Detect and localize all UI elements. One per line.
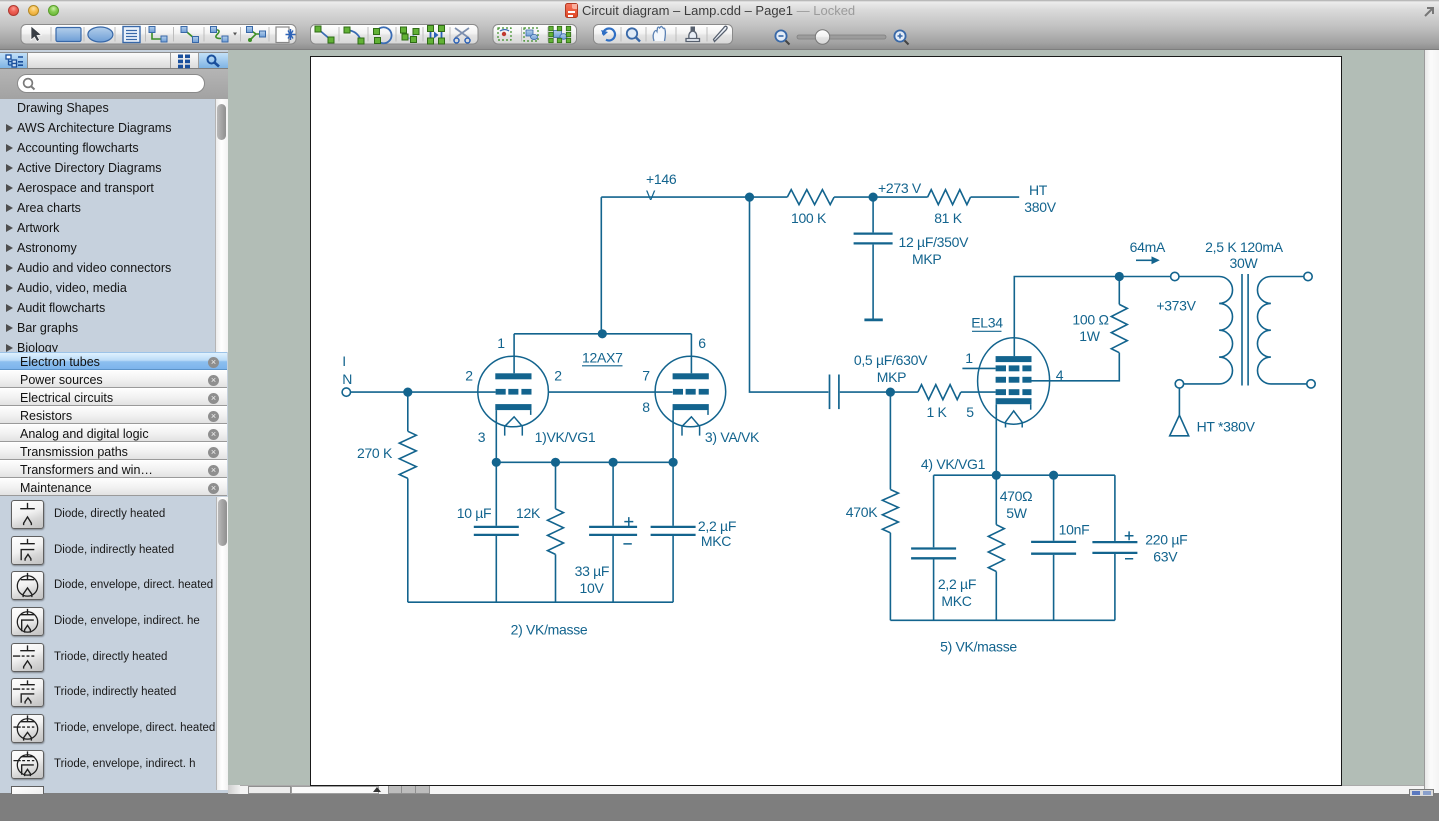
wire: V1a grid to V1b grid [548, 391, 672, 393]
svg-text:N: N [342, 370, 352, 386]
primary terminal bottom [1175, 379, 1183, 387]
wire: bus to 12K [554, 462, 556, 509]
input terminal IN [342, 387, 350, 395]
svg-text:2,5 K 120mA: 2,5 K 120mA [1205, 239, 1284, 255]
svg-text:30W: 30W [1229, 255, 1258, 271]
junction: cathode bus at 2,2uF [668, 457, 677, 466]
wire: 10nF to ground bus [1052, 554, 1054, 620]
value label 2,2 uF MKC [697, 518, 735, 549]
value label 10 uF [456, 505, 491, 521]
wire: ground bus (EL34 stage) [890, 619, 1115, 621]
value label 1 K [926, 404, 947, 420]
svg-text:33 µF: 33 µF [574, 563, 609, 579]
wire: primary bottom to HT symbol [1178, 388, 1180, 415]
svg-text:1: 1 [497, 335, 505, 351]
wire: input to grid of V1a [350, 391, 495, 393]
junction: cathode at 470 Ohm [991, 470, 1000, 479]
wire: 1K to EL34 grid pin 5 [960, 391, 995, 393]
svg-text:7: 7 [642, 367, 650, 383]
svg-text:63V: 63V [1153, 548, 1178, 564]
wire: capacitor to ground stub [872, 244, 874, 318]
pin 1 label [965, 350, 973, 366]
net label HT 380V [1024, 182, 1056, 215]
tube type label EL34 [971, 314, 1003, 331]
wire: +273V node down to capacitor [872, 197, 874, 232]
svg-text:100 K: 100 K [790, 210, 826, 226]
wire: junction to 10nF [1052, 475, 1054, 541]
wire: V1b cathode down [672, 410, 674, 462]
resistor 1 K (grid stopper) [917, 384, 960, 399]
wire: 10uF to ground bus [495, 536, 497, 602]
stencil icon: diode envelope directly heated [11, 571, 44, 600]
stencil icon: triode directly heated [11, 643, 44, 672]
net label +146 V [646, 171, 677, 203]
svg-text:MKC: MKC [941, 593, 971, 609]
junction: cathode bus at 10uF [491, 457, 500, 466]
wire: V1a cathode down [495, 410, 497, 462]
svg-text:I: I [342, 352, 346, 368]
pin 7 label (V1b grid) [642, 367, 650, 383]
svg-text:470K: 470K [845, 504, 877, 520]
pin 1 stub (EL34 g3) [962, 367, 995, 369]
svg-text:V: V [646, 187, 656, 203]
svg-text:2) VK/masse: 2) VK/masse [510, 621, 587, 637]
svg-text:12AX7: 12AX7 [582, 349, 623, 365]
wire: ground bus (12AX7 stage) [407, 601, 672, 603]
junction: EL34 grid node [885, 387, 894, 396]
junction: input node [403, 387, 412, 396]
resistor 470K (grid leak EL34) [882, 489, 898, 532]
stencil icon: diode indirectly heated [11, 536, 44, 565]
wire: bus to 2,2uF [672, 462, 674, 526]
resistor 270 K (grid leak) [399, 431, 416, 478]
wire: 81K to HT supply [970, 196, 1019, 198]
junction: anode bus [597, 329, 606, 338]
resistor 100 K [787, 189, 834, 204]
svg-text:12 µF/350V: 12 µF/350V [898, 234, 969, 250]
function label 5) VK/masse [940, 638, 1017, 654]
wire: grid node to 1K [890, 391, 918, 393]
wire: EL34 cathode down [995, 404, 997, 475]
pentode U1 EL34 [977, 337, 1049, 427]
junction: cathode at 10nF [1049, 470, 1058, 479]
junction: cathode bus at 33uF [608, 457, 617, 466]
svg-text:1 K: 1 K [926, 404, 947, 420]
value label 12K [515, 505, 540, 521]
wire: input node down to resistor [406, 392, 408, 431]
wire: coupling cap to grid node [839, 391, 890, 393]
value label 12 uF/350V MKP [898, 234, 969, 267]
transformer primary terminal (top) [1170, 272, 1178, 280]
svg-text:1W: 1W [1079, 328, 1100, 344]
svg-text:270 K: 270 K [356, 445, 392, 461]
transformer core [1242, 274, 1248, 386]
current label 64mA with arrow [1129, 239, 1165, 264]
svg-text:470Ω: 470Ω [999, 488, 1032, 504]
net label +373V [1156, 297, 1196, 313]
wire: 470 Ohm to ground bus [995, 571, 997, 620]
triode V1b (12AX7 section 2) [655, 333, 726, 435]
resistor 470 Ohm 5W (cathode bias) [988, 524, 1004, 571]
wire: EL34 cathode bus [933, 474, 1114, 476]
svg-text:8: 8 [642, 399, 650, 415]
net label +273 V [878, 180, 922, 196]
wire: +273V to 81K [873, 196, 928, 198]
value label 470 Ohm 5W [999, 488, 1032, 521]
secondary terminal bottom [1306, 379, 1314, 387]
svg-text:MKP: MKP [876, 369, 905, 385]
value label 2,2 uF MKC [937, 576, 975, 609]
wire: 2,2uF to ground bus [672, 536, 674, 602]
svg-text:5W: 5W [1006, 505, 1027, 521]
junction: coupling takeoff [744, 192, 753, 201]
svg-text:220 µF: 220 µF [1145, 531, 1187, 547]
tube type label 12AX7 [582, 349, 623, 366]
value label 100 K [790, 210, 826, 226]
junction: cathode bus at 12K [550, 457, 559, 466]
stencil icon: triode indirectly heated [11, 678, 44, 707]
value label 10nF [1058, 521, 1089, 537]
svg-text:380V: 380V [1024, 199, 1056, 215]
stencil icon: diode directly heated [11, 500, 44, 529]
svg-text:64mA: 64mA [1129, 239, 1165, 255]
wire: 33uF to ground bus [612, 536, 614, 602]
capacitor 12 uF/350V MKP [853, 233, 892, 243]
value label 100 Ohm 1W [1072, 311, 1108, 344]
wire: grid node down to 470K [889, 392, 891, 489]
junction: +273V node [868, 192, 877, 201]
svg-text:EL34: EL34 [971, 314, 1003, 330]
pin 8 label (V1b cathode) [642, 399, 650, 415]
svg-text:1)VK/VG1: 1)VK/VG1 [534, 428, 595, 444]
node label IN [342, 352, 352, 386]
capacitor 10 uF [473, 526, 518, 534]
svg-text:MKC: MKC [700, 533, 730, 549]
svg-text:2,2 µF: 2,2 µF [937, 576, 975, 592]
svg-text:2: 2 [465, 367, 473, 383]
function label 1)VK/VG1 [534, 428, 595, 444]
svg-text:5: 5 [966, 404, 974, 420]
svg-text:10V: 10V [579, 580, 604, 596]
stencil icon: triode envelope indirectly heated [11, 750, 44, 779]
ground bar [864, 318, 882, 321]
pin 4 label [1055, 367, 1063, 383]
svg-text:2,2 µF: 2,2 µF [697, 518, 735, 534]
svg-text:6: 6 [698, 335, 706, 351]
wire: 100K to +273V node [834, 196, 873, 198]
secondary terminal top [1303, 272, 1311, 280]
value label 270 K [356, 445, 392, 461]
junction: anode / output transformer node [1114, 271, 1123, 280]
capacitor 10nF [1031, 541, 1076, 553]
transformer T1 primary winding [1179, 276, 1232, 383]
svg-text:HT: HT [1028, 182, 1047, 198]
HT supply symbol (triangle) [1169, 415, 1188, 436]
pin 5 label (EL34 g1) [966, 404, 974, 420]
svg-text:1: 1 [965, 350, 973, 366]
svg-text:12K: 12K [515, 505, 540, 521]
wire: 220uF to ground bus [1113, 554, 1115, 620]
transformer rating label 2,5 K 120mA 30W [1205, 239, 1284, 271]
wire: EL34 anode up and right [1014, 276, 1170, 356]
svg-text:10nF: 10nF [1058, 521, 1089, 537]
stencil icon: diode envelope indirectly heated [11, 607, 44, 636]
net label HT *380V [1196, 418, 1255, 434]
capacitor 33 uF 10V (electrolytic) [589, 517, 637, 544]
svg-text:MKP: MKP [912, 251, 941, 267]
stencil icon: triode envelope directly heated [11, 714, 44, 743]
capacitor 0,5 uF/630V MKP (coupling) [829, 374, 838, 409]
function label 4) VK/VG1 [920, 456, 985, 472]
pin 2 label left (V1a grid) [465, 367, 473, 383]
svg-text:81 K: 81 K [934, 210, 963, 226]
svg-text:0,5 µF/630V: 0,5 µF/630V [853, 352, 927, 368]
value label 470K [845, 504, 877, 520]
capacitor 220 uF 63V (electrolytic) [1092, 531, 1137, 558]
svg-text:10 µF: 10 µF [456, 505, 491, 521]
svg-text:4) VK/VG1: 4) VK/VG1 [920, 456, 985, 472]
pin 6 label (V1b anode) [698, 335, 706, 351]
svg-text:+273 V: +273 V [878, 180, 922, 196]
wire: 470K to EL34 ground bus [889, 532, 891, 620]
wire: cathode bus [496, 461, 673, 463]
svg-text:4: 4 [1055, 367, 1063, 383]
wire: coupling takeoff down and right [749, 197, 828, 392]
wire: 270K to ground bus [406, 478, 408, 602]
wire: bus to 220uF [1113, 475, 1115, 541]
wire: junction to 470 Ohm [995, 475, 997, 525]
wire: riser anode bus to +146V rail [600, 197, 602, 334]
resistor 12K [547, 508, 563, 554]
pin 1 label (V1a anode) [497, 335, 505, 351]
wire: bus to 10uF [495, 462, 497, 526]
value label 33 uF 10V [574, 563, 609, 596]
svg-text:+146: +146 [646, 171, 677, 187]
value label 220 uF 63V [1145, 531, 1187, 564]
svg-text:5) VK/masse: 5) VK/masse [940, 638, 1017, 654]
svg-text:+373V: +373V [1156, 297, 1196, 313]
transformer T1 secondary winding [1257, 276, 1306, 383]
resistor 100 Ohm 1W (screen) [1111, 276, 1127, 352]
capacitor 2,2 uF MKC [650, 526, 695, 534]
svg-text:3) VA/VK: 3) VA/VK [704, 428, 759, 444]
pin 3 label (V1a cathode) [477, 428, 485, 444]
function label 3) VA/VK [704, 428, 759, 444]
wire: 12K to ground bus [554, 554, 556, 602]
value label 0,5 uF/630V MKP [853, 352, 927, 385]
wire: EL34 screen pin 4 [1031, 352, 1119, 380]
svg-text:HT *380V: HT *380V [1196, 418, 1255, 434]
wire: anode bus between V1a and V1b [514, 332, 691, 334]
wire: +146V rail [601, 196, 787, 198]
resistor 81 K [927, 189, 970, 204]
pin 2 label right (V1a grid) [554, 367, 562, 383]
svg-text:100 Ω: 100 Ω [1072, 311, 1108, 327]
wire: bus to 33uF [612, 462, 614, 526]
triode V1a (12AX7 section 1) [477, 333, 548, 435]
value label 81 K [934, 210, 963, 226]
capacitor 2,2 uF MKC (output stage) [911, 548, 956, 558]
svg-text:3: 3 [477, 428, 485, 444]
wire: bus to 2,2uF MKC (output stage) [932, 475, 934, 547]
svg-text:2: 2 [554, 367, 562, 383]
stencil icon: partial next item [11, 786, 44, 794]
function label 2) VK/masse [510, 621, 587, 637]
wire: cap to ground bus [932, 559, 934, 620]
